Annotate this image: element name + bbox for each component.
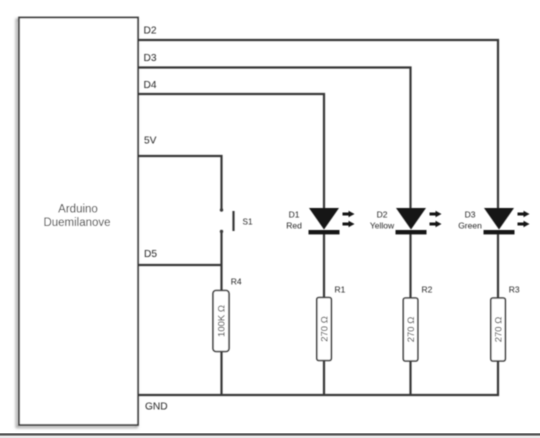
svg-text:D2: D2 bbox=[377, 210, 388, 220]
svg-text:GND: GND bbox=[145, 401, 168, 412]
svg-text:5V: 5V bbox=[144, 136, 157, 147]
svg-text:D3: D3 bbox=[465, 210, 476, 220]
svg-text:Green: Green bbox=[458, 220, 482, 230]
svg-text:Yellow: Yellow bbox=[370, 220, 395, 230]
svg-text:D1: D1 bbox=[289, 210, 300, 220]
svg-text:R4: R4 bbox=[231, 277, 242, 287]
svg-text:D3: D3 bbox=[144, 53, 157, 64]
svg-text:Arduino: Arduino bbox=[58, 204, 98, 216]
svg-text:Duemilanove: Duemilanove bbox=[43, 217, 110, 229]
svg-text:100K Ω: 100K Ω bbox=[217, 305, 228, 337]
svg-text:270 Ω: 270 Ω bbox=[494, 317, 505, 343]
svg-text:S1: S1 bbox=[243, 218, 253, 227]
svg-text:D5: D5 bbox=[144, 249, 157, 260]
svg-text:R3: R3 bbox=[509, 285, 520, 295]
svg-text:270 Ω: 270 Ω bbox=[320, 316, 331, 342]
svg-text:270 Ω: 270 Ω bbox=[406, 317, 417, 343]
svg-text:Red: Red bbox=[286, 220, 302, 230]
svg-text:R1: R1 bbox=[335, 285, 346, 295]
svg-text:D2: D2 bbox=[144, 26, 157, 37]
svg-text:D4: D4 bbox=[144, 80, 157, 91]
svg-text:R2: R2 bbox=[422, 285, 433, 295]
